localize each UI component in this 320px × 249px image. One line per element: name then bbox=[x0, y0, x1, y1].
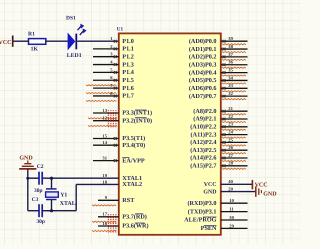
pin 25 ((A12)P2.4) name bbox=[190, 139, 216, 146]
pin 23 ((A10)P2.2) name bbox=[190, 124, 216, 131]
svg-text:P1.1: P1.1 bbox=[122, 46, 134, 53]
pin 21 ((A8)P2.0) name bbox=[193, 108, 216, 115]
pin 40 (VCC) name bbox=[204, 182, 217, 188]
pin 34 stub bbox=[221, 75, 248, 84]
svg-text:C2: C2 bbox=[37, 164, 44, 170]
pin 12 (P3.2(INT0)) name bbox=[122, 117, 152, 124]
svg-text:GND: GND bbox=[263, 191, 277, 197]
svg-text:(AD5)P0.5: (AD5)P0.5 bbox=[189, 77, 217, 84]
svg-text:19: 19 bbox=[102, 173, 107, 178]
svg-text:34: 34 bbox=[228, 75, 233, 80]
svg-text:39: 39 bbox=[228, 36, 233, 41]
pin 39 ((AD0)P0.0) name bbox=[189, 38, 217, 45]
wire bus to C2, node at bus bbox=[26, 177, 39, 180]
svg-text:LED1: LED1 bbox=[67, 53, 82, 59]
svg-text:P1.6: P1.6 bbox=[122, 85, 134, 92]
pin 3 stub bbox=[93, 52, 119, 59]
svg-text:P1.5: P1.5 bbox=[122, 77, 134, 84]
pin 9 stub bbox=[92, 195, 119, 206]
pin 30 stub bbox=[221, 215, 248, 220]
microcontroller U1 body bbox=[119, 33, 221, 234]
pin 15 stub bbox=[93, 133, 119, 140]
svg-text:25: 25 bbox=[228, 137, 233, 142]
pin 28 stub bbox=[221, 161, 248, 170]
svg-text:(AD4)P0.4: (AD4)P0.4 bbox=[189, 69, 217, 76]
svg-text:(RXD)P3.0: (RXD)P3.0 bbox=[187, 200, 216, 207]
svg-text:GND: GND bbox=[19, 156, 33, 162]
pin 25 stub bbox=[221, 137, 248, 146]
pin 13 stub bbox=[88, 108, 119, 119]
svg-text:1K: 1K bbox=[31, 46, 39, 52]
pin 31 stub bbox=[93, 156, 119, 163]
pin 33 stub bbox=[221, 83, 248, 92]
svg-text:P1.0: P1.0 bbox=[122, 38, 134, 45]
svg-text:P1.2: P1.2 bbox=[122, 53, 134, 60]
wire C2 / crystal node A to XTAL1 (pin 19) bbox=[42, 173, 119, 178]
pin 1 stub bbox=[110, 36, 116, 43]
pin 35 ((AD4)P0.4) name bbox=[189, 69, 217, 76]
wire node B riser to XTAL2 (pin 18) bbox=[76, 179, 119, 210]
wire GND bus (vertical) bbox=[27, 170, 29, 211]
pin 37 ((AD2)P0.2) name bbox=[189, 54, 217, 61]
pin 37 stub bbox=[221, 52, 248, 61]
wire VCC to R1 bbox=[14, 40, 29, 42]
svg-text:23: 23 bbox=[228, 122, 233, 127]
pin 26 stub bbox=[221, 145, 248, 154]
pin 4 (P1.3) name bbox=[122, 61, 134, 68]
svg-text:18: 18 bbox=[102, 179, 107, 184]
svg-text:(A8)P2.0: (A8)P2.0 bbox=[193, 108, 216, 115]
svg-text:38: 38 bbox=[228, 44, 233, 49]
LED DS1 bbox=[66, 16, 87, 60]
svg-text:DS1: DS1 bbox=[66, 16, 76, 22]
pin 11 ((TXD)P3.1) name bbox=[188, 208, 217, 215]
svg-text:EA/VPP: EA/VPP bbox=[122, 157, 145, 164]
pin 7 (P1.6) name bbox=[122, 85, 134, 92]
svg-text:(A15)P2.7: (A15)P2.7 bbox=[190, 163, 216, 170]
svg-text:27: 27 bbox=[228, 153, 233, 158]
svg-text:C3: C3 bbox=[32, 197, 39, 203]
pin 22 ((A9)P2.1) name bbox=[193, 116, 216, 123]
power symbol VCC (left) bbox=[0, 36, 13, 47]
pin 26 ((A13)P2.5) name bbox=[190, 147, 216, 154]
svg-text:11: 11 bbox=[229, 207, 234, 212]
pin 21 stub bbox=[221, 106, 248, 115]
svg-text:R1: R1 bbox=[28, 32, 35, 38]
pin 17 stub bbox=[92, 212, 119, 223]
svg-text:(TXD)P3.1: (TXD)P3.1 bbox=[188, 208, 217, 215]
pin 1 (P1.0) name bbox=[122, 38, 134, 45]
svg-text:P3.7(RD): P3.7(RD) bbox=[122, 214, 147, 221]
svg-text:VCC: VCC bbox=[255, 183, 268, 189]
svg-text:30p: 30p bbox=[34, 188, 43, 194]
pin 27 ((A14)P2.6) name bbox=[190, 155, 216, 162]
svg-text:(A10)P2.2: (A10)P2.2 bbox=[190, 124, 216, 131]
svg-text:21: 21 bbox=[228, 106, 233, 111]
resistor R1 bbox=[28, 32, 46, 53]
wire LED to U1 pin 1 bbox=[77, 40, 119, 42]
pin 16 stub bbox=[92, 221, 119, 232]
svg-text:XTAL2: XTAL2 bbox=[122, 181, 142, 188]
svg-text:P1.4: P1.4 bbox=[122, 69, 134, 76]
svg-text:(A13)P2.5: (A13)P2.5 bbox=[190, 147, 216, 154]
pin 6 (P1.5) name bbox=[122, 77, 134, 84]
pin 17 (P3.7(RD)) name bbox=[122, 214, 147, 221]
svg-text:(AD0)P0.0: (AD0)P0.0 bbox=[189, 38, 217, 45]
pin 34 ((AD5)P0.5) name bbox=[189, 77, 217, 84]
pin 35 stub bbox=[221, 68, 248, 77]
wire pin 20 to GND symbol bbox=[221, 187, 256, 192]
svg-text:(AD1)P0.1: (AD1)P0.1 bbox=[189, 46, 217, 53]
pin 31 (EA/VPP) name bbox=[122, 157, 145, 164]
svg-text:Y1: Y1 bbox=[60, 192, 67, 198]
pin 32 stub bbox=[221, 91, 248, 100]
svg-text:22: 22 bbox=[228, 114, 233, 119]
svg-text:RST: RST bbox=[122, 197, 135, 204]
pin 3 (P1.2) name bbox=[122, 53, 134, 60]
pin 18 (XTAL2) name bbox=[122, 181, 142, 188]
pin 23 stub bbox=[221, 122, 248, 131]
svg-text:40: 40 bbox=[228, 179, 233, 184]
wire R1 to LED bbox=[46, 40, 68, 42]
svg-text:28: 28 bbox=[228, 161, 233, 166]
svg-text:30: 30 bbox=[229, 215, 234, 220]
pin 5 stub bbox=[93, 67, 119, 74]
svg-text:24: 24 bbox=[228, 130, 233, 135]
ground symbol GND (right) bbox=[256, 186, 277, 197]
svg-text:14: 14 bbox=[102, 140, 107, 145]
svg-text:(AD2)P0.2: (AD2)P0.2 bbox=[189, 54, 217, 61]
capacitor C2 bbox=[34, 164, 44, 194]
pin 8 stub bbox=[86, 91, 119, 102]
pin 38 ((AD1)P0.1) name bbox=[189, 46, 217, 53]
pin 12 stub bbox=[88, 116, 119, 127]
svg-text:P3.2(INT0): P3.2(INT0) bbox=[122, 117, 152, 124]
svg-text:(A14)P2.6: (A14)P2.6 bbox=[190, 155, 216, 162]
pin 2 stub bbox=[93, 44, 119, 51]
pin 29 (PSEN) name bbox=[201, 225, 217, 232]
svg-text:17: 17 bbox=[102, 212, 107, 217]
svg-text:VCC: VCC bbox=[0, 40, 12, 46]
svg-text:26: 26 bbox=[228, 145, 233, 150]
pin 14 (P3.4(T0)) name bbox=[122, 142, 145, 149]
pin 22 stub bbox=[221, 114, 248, 123]
power symbol VCC (right) bbox=[252, 180, 267, 189]
svg-text:P3.3(INT1): P3.3(INT1) bbox=[122, 110, 152, 117]
pin 30 (ALE/PROG) name bbox=[184, 217, 217, 224]
svg-text:15: 15 bbox=[102, 133, 107, 138]
pin 36 ((AD3)P0.3) name bbox=[189, 61, 217, 68]
wire node B to XTAL2 riser bbox=[52, 210, 77, 212]
pin 9 (RST) name bbox=[122, 197, 135, 204]
svg-text:(A12)P2.4: (A12)P2.4 bbox=[190, 139, 216, 146]
svg-text:XTAL: XTAL bbox=[60, 201, 76, 207]
pin 11 stub bbox=[221, 207, 248, 212]
pin 32 ((AD7)P0.7) name bbox=[189, 93, 217, 100]
svg-text:36: 36 bbox=[228, 60, 233, 65]
svg-text:37: 37 bbox=[228, 52, 233, 57]
svg-text:P3.6(WR): P3.6(WR) bbox=[122, 223, 148, 230]
pin 7 stub bbox=[86, 83, 119, 94]
wire bus to C3 bbox=[28, 210, 39, 212]
svg-text:32: 32 bbox=[228, 91, 233, 96]
svg-text:P3.4(T0): P3.4(T0) bbox=[122, 142, 145, 149]
svg-text:GND: GND bbox=[203, 189, 216, 195]
pin 14 stub bbox=[93, 140, 119, 147]
pin 38 stub bbox=[221, 44, 248, 53]
crystal Y1 bbox=[46, 189, 76, 207]
pin 27 stub bbox=[221, 153, 248, 162]
pin 10 stub bbox=[221, 198, 248, 203]
pin 2 (P1.1) name bbox=[122, 46, 134, 53]
svg-text:ALE/PROG: ALE/PROG bbox=[184, 217, 217, 224]
svg-text:(AD3)P0.3: (AD3)P0.3 bbox=[189, 61, 217, 68]
svg-text:(A11)P2.3: (A11)P2.3 bbox=[191, 131, 217, 138]
wire C3 to node B bbox=[42, 210, 51, 212]
pin 16 (P3.6(WR)) name bbox=[122, 223, 148, 230]
svg-text:PSEN: PSEN bbox=[201, 225, 217, 232]
pin 19 (XTAL1) name bbox=[122, 175, 142, 182]
svg-text:P1.3: P1.3 bbox=[122, 61, 134, 68]
pin 39 stub bbox=[221, 36, 248, 45]
svg-text:31: 31 bbox=[102, 156, 107, 161]
svg-text:12: 12 bbox=[102, 116, 107, 121]
svg-text:(AD6)P0.6: (AD6)P0.6 bbox=[189, 85, 217, 92]
svg-text:20: 20 bbox=[228, 187, 233, 192]
pin 36 stub bbox=[221, 60, 248, 69]
pin 10 ((RXD)P3.0) name bbox=[187, 200, 216, 207]
svg-text:13: 13 bbox=[102, 108, 107, 113]
pin 24 stub bbox=[221, 130, 248, 139]
chip U1 designator bbox=[117, 26, 124, 32]
capacitor C3 bbox=[32, 197, 45, 225]
svg-text:30p: 30p bbox=[36, 219, 45, 225]
pin 28 ((A15)P2.7) name bbox=[190, 163, 216, 170]
pin 6 stub bbox=[86, 75, 119, 86]
svg-text:16: 16 bbox=[102, 221, 107, 226]
svg-text:10: 10 bbox=[229, 198, 234, 203]
svg-text:P1.7: P1.7 bbox=[122, 93, 134, 100]
pin 8 (P1.7) name bbox=[122, 93, 134, 100]
svg-text:(AD7)P0.7: (AD7)P0.7 bbox=[189, 93, 217, 100]
pin 29 stub bbox=[221, 223, 248, 228]
pin 15 (P3.5(T1)) name bbox=[122, 135, 145, 142]
pin 33 ((AD6)P0.6) name bbox=[189, 85, 217, 92]
node A: crystal top junction bbox=[50, 177, 53, 189]
node B: crystal bottom junction bbox=[50, 200, 53, 213]
svg-text:35: 35 bbox=[228, 68, 233, 73]
ground symbol GND (left) bbox=[19, 156, 36, 169]
svg-text:33: 33 bbox=[228, 83, 233, 88]
svg-text:29: 29 bbox=[229, 223, 234, 228]
pin 24 ((A11)P2.3) name bbox=[191, 131, 217, 138]
pin 13 (P3.3(INT1)) name bbox=[122, 110, 152, 117]
svg-text:VCC: VCC bbox=[204, 182, 217, 188]
wire pin 40 to VCC symbol bbox=[221, 179, 253, 184]
pin 4 stub bbox=[93, 59, 119, 65]
svg-text:U1: U1 bbox=[117, 26, 124, 32]
svg-text:(A9)P2.1: (A9)P2.1 bbox=[193, 116, 216, 123]
pin 5 (P1.4) name bbox=[122, 69, 134, 76]
pin 20 (GND) name bbox=[203, 189, 216, 195]
